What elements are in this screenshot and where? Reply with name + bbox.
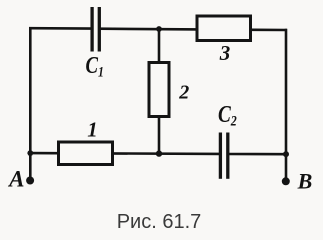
resistor R2 [149,63,169,117]
node junction bottom middle [156,150,162,156]
wire middle vertical branch [158,29,161,154]
wire left vertical (top-left corner down to terminal A) [29,27,32,181]
node junction top middle [156,26,162,32]
svg-text:A: A [7,166,24,191]
svg-text:3: 3 [219,41,231,65]
node junction right [283,151,289,157]
terminal B dot [282,177,290,185]
svg-text:Рис. 61.7: Рис. 61.7 [117,211,202,233]
wire right vertical (top-right corner down to terminal B) [285,29,288,182]
capacitor C1 [92,7,99,52]
wire bottom (node A to node B, through C2 gap break) [29,153,287,154]
svg-text:2: 2 [178,82,189,104]
terminal A dot [26,177,34,185]
capacitor C2 [220,133,227,179]
wire top (node A side to node B side, through C1 gap break) [29,28,287,30]
svg-text:B: B [297,169,313,194]
resistor R3 [197,16,251,41]
node junction left [27,150,33,156]
svg-text:1: 1 [87,118,98,142]
resistor R1 [59,142,113,165]
